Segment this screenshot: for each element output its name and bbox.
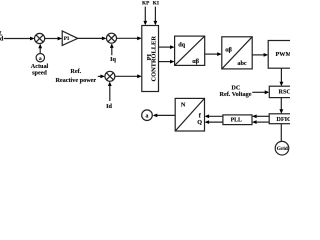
svg-text:a: a: [39, 56, 42, 62]
wire dq block to abc block: [205, 52, 222, 56]
svg-text:PLL: PLL: [231, 118, 242, 124]
svg-text:αβ: αβ: [192, 58, 199, 65]
wire DC Ref. Voltage to RSC: [252, 90, 269, 94]
wire KI into PI controller: [154, 7, 158, 26]
summing junction S2: [107, 33, 117, 43]
svg-text:speed: speed: [0, 35, 4, 42]
wire S2 to PI controller: [117, 36, 142, 40]
wire PLL to N block Q input: [205, 120, 223, 124]
block N measurement: [175, 98, 204, 131]
svg-text:αβ: αβ: [225, 46, 232, 53]
wire PLL to N block f input: [205, 114, 223, 118]
svg-text:CONTROLLER: CONTROLLER: [151, 36, 158, 82]
wire PWM to RSC: [280, 68, 284, 86]
wire PI controller to dq block upper: [159, 45, 175, 49]
summing junction S1: [35, 33, 45, 43]
block PWM: [268, 41, 295, 69]
block PLL: [223, 115, 252, 125]
svg-text:KP: KP: [142, 1, 150, 7]
connector a speed feedback: [142, 110, 153, 121]
wire connector a to S1: [38, 44, 42, 54]
wire Iq into S2: [110, 43, 114, 55]
svg-text:Iq: Iq: [110, 56, 116, 63]
block DFIG: [269, 114, 295, 124]
summing junction S3: [105, 71, 115, 81]
svg-text:Q: Q: [197, 119, 202, 126]
node Grid: [275, 141, 289, 155]
connector a actual speed: [36, 54, 44, 62]
svg-text:PI: PI: [64, 36, 70, 42]
svg-text:dq: dq: [178, 42, 185, 49]
node DC Ref. Voltage label: [220, 84, 252, 98]
svg-text:DFIG: DFIG: [276, 116, 290, 123]
svg-text:a: a: [146, 114, 149, 120]
svg-text:KI: KI: [153, 1, 159, 7]
svg-text:Grid: Grid: [277, 146, 288, 152]
svg-text:N: N: [181, 101, 186, 108]
node Ref. Reactive power label: [55, 68, 96, 84]
wire Ref. speed to summing junction S1: [4, 37, 35, 41]
svg-text:Ref.: Ref.: [70, 68, 81, 75]
wire DFIG to PLL lower: [252, 120, 269, 124]
wire Ref. Reactive power to summing junction S3: [98, 75, 105, 79]
wire PI controller to dq block lower: [159, 60, 175, 64]
svg-text:Reactive power: Reactive power: [55, 77, 96, 84]
svg-text:RSC: RSC: [279, 88, 291, 95]
wire S3 to PI controller: [115, 74, 142, 78]
block RSC: [269, 86, 295, 97]
wire DFIG to PLL upper: [252, 114, 269, 118]
svg-text:abc: abc: [237, 60, 247, 67]
wire abc block to PWM: [252, 53, 268, 57]
wire DFIG to Grid: [280, 124, 282, 142]
amplifier PI: [62, 31, 77, 45]
wire RSC to DFIG: [279, 98, 283, 114]
wire N block to connector a: [153, 114, 176, 118]
wire KP into PI controller: [143, 7, 147, 26]
block alpha-beta to abc transform: [222, 37, 252, 69]
block U1 PI CONTROLLER: [142, 26, 159, 92]
node Ref. speed label: [0, 31, 4, 43]
node Actual speed label: [31, 63, 49, 76]
block dq to alpha-beta transform: [175, 36, 205, 65]
wire PI to summing junction S2: [78, 37, 107, 41]
wire Id into S3: [108, 82, 112, 102]
svg-text:Ref. Voltage: Ref. Voltage: [220, 91, 252, 98]
wire S1 to PI amplifier: [45, 37, 63, 41]
svg-text:speed: speed: [32, 69, 47, 76]
svg-text:PWM: PWM: [276, 51, 291, 58]
svg-text:Id: Id: [106, 103, 112, 110]
